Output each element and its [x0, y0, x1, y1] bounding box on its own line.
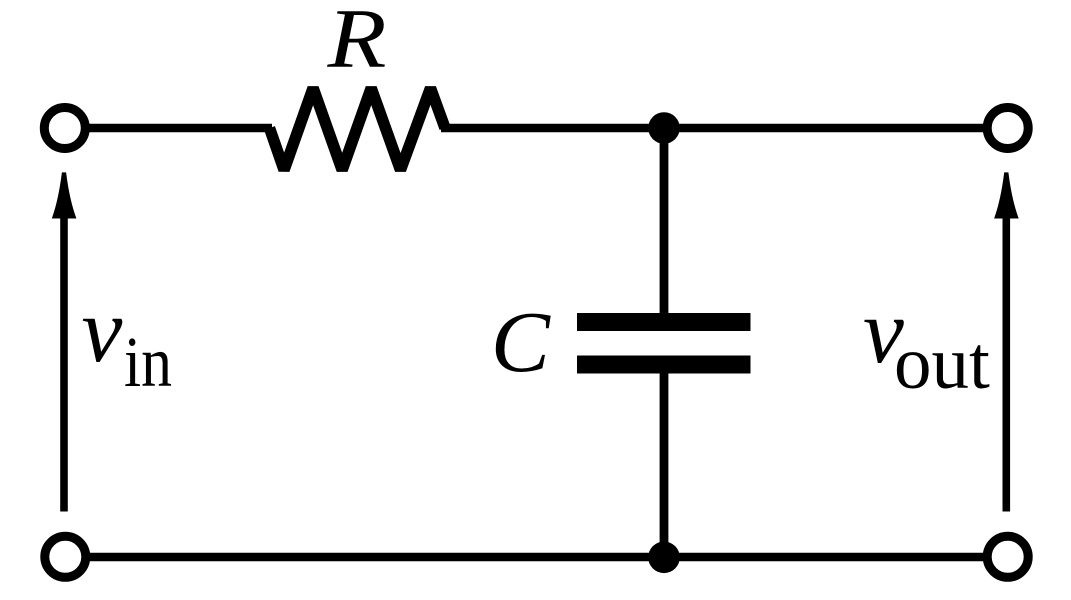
svg-text:v: v: [82, 279, 123, 381]
resistor R: [270, 88, 446, 170]
wire top-right segment: [441, 124, 986, 133]
wire top-left segment: [86, 124, 272, 133]
svg-text:in: in: [124, 322, 172, 402]
wire capacitor bottom: [660, 374, 669, 561]
arrow v_in shaft: [60, 214, 68, 512]
junction node top: [648, 112, 680, 144]
svg-text:C: C: [491, 294, 551, 390]
capacitor C bottom plate: [577, 356, 751, 374]
capacitor C top plate: [577, 313, 751, 331]
wire capacitor top: [660, 124, 669, 313]
junction node bottom: [648, 542, 680, 574]
bottom wire: [86, 553, 986, 562]
terminal top-left: [44, 108, 85, 149]
svg-text:out: out: [894, 322, 990, 405]
terminal bottom-left: [45, 536, 86, 577]
terminal bottom-right: [987, 536, 1028, 577]
terminal top-right: [987, 108, 1028, 149]
arrow v_out head: [994, 172, 1019, 218]
arrow v_in head: [52, 172, 77, 218]
svg-text:R: R: [326, 0, 386, 86]
arrow v_out shaft: [1002, 214, 1010, 512]
